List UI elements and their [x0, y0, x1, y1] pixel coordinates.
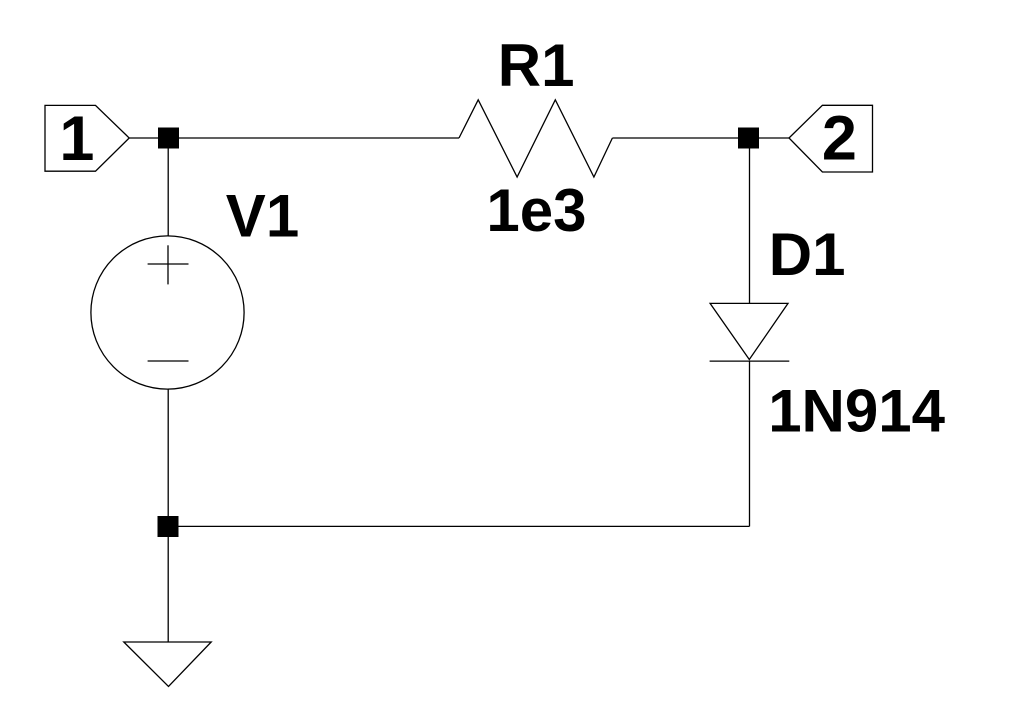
wire: voltage source bottom to ground node	[167, 389, 169, 527]
junction node at port 1 / V1 top	[158, 128, 179, 149]
V1 minus sign	[148, 360, 189, 362]
wire: ground node down to ground symbol	[167, 527, 169, 642]
svg-text:1e3: 1e3	[486, 177, 586, 244]
junction node at port 2 / D1 top	[738, 128, 759, 149]
resistor R1 zigzag	[459, 100, 612, 177]
port marker 1	[45, 105, 129, 171]
port marker 2	[789, 105, 873, 172]
svg-text:D1: D1	[769, 221, 846, 288]
voltage source V1 circle	[91, 236, 244, 389]
wire: diode cathode down to bottom rail	[749, 361, 751, 526]
wire: top rail left segment (port 1 to resistor)	[129, 137, 459, 139]
svg-text:1N914: 1N914	[768, 378, 945, 445]
svg-text:2: 2	[822, 103, 857, 173]
svg-text:1: 1	[59, 104, 94, 174]
svg-text:V1: V1	[226, 183, 299, 250]
wire: top rail right segment (resistor to port 2)	[612, 137, 789, 139]
V1 plus sign	[148, 263, 189, 265]
svg-text:R1: R1	[498, 32, 575, 99]
wire: node 2 down to diode anode	[749, 138, 751, 303]
diode D1 cathode bar	[710, 360, 790, 362]
wire: node 1 down to voltage source top	[167, 138, 169, 237]
diode D1 triangle	[710, 303, 788, 359]
wire: bottom rail	[168, 525, 750, 527]
ground symbol	[124, 642, 211, 687]
junction node at V1 bottom / ground	[158, 516, 179, 537]
